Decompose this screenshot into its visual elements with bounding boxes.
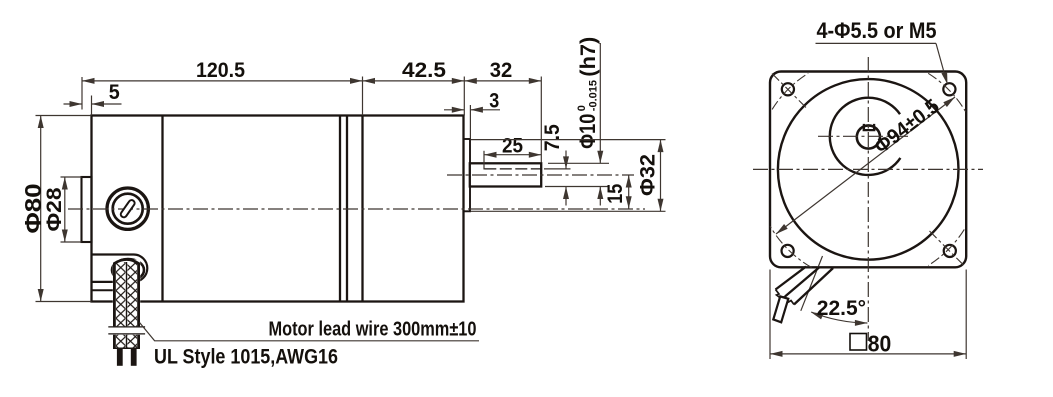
ext line left x82 bbox=[81, 77, 83, 110]
front wire break 2 bbox=[785, 297, 794, 305]
screw head inner bbox=[113, 194, 143, 224]
front horizontal centerline bbox=[753, 168, 983, 170]
ext line d32 top bbox=[471, 139, 666, 141]
mounting hole TL bbox=[782, 83, 794, 95]
gearhead case circle bbox=[778, 79, 959, 260]
ext line d28 bottom bbox=[61, 241, 82, 243]
dim 42.5 bbox=[363, 80, 465, 82]
dim phi80 bbox=[40, 116, 42, 302]
svg-text:Motor lead wire 300mm±10: Motor lead wire 300mm±10 bbox=[269, 317, 477, 340]
body centerline bbox=[68, 208, 645, 210]
svg-text:-0.015: -0.015 bbox=[587, 80, 599, 111]
bolt circle arc BR bbox=[928, 229, 964, 265]
dim phi10 bbox=[599, 43, 601, 163]
shaft keyway bbox=[863, 124, 876, 130]
svg-text:Φ10: Φ10 bbox=[575, 114, 600, 149]
ext line shaft bottom bbox=[545, 186, 609, 188]
front wire line 2 bbox=[785, 267, 820, 296]
svg-text:42.5: 42.5 bbox=[402, 58, 446, 82]
dim 3 bbox=[444, 109, 464, 111]
bolt circle arc TL bbox=[772, 73, 808, 109]
ext line d80 bottom bbox=[36, 301, 92, 303]
dim 25 bbox=[484, 154, 541, 156]
svg-text:7.5: 7.5 bbox=[540, 124, 564, 151]
ext line d32 bottom bbox=[471, 210, 666, 212]
mounting hole TR bbox=[943, 83, 955, 95]
shaft circle bbox=[857, 125, 880, 148]
dim 15 bbox=[628, 175, 630, 209]
svg-text:120.5: 120.5 bbox=[196, 58, 245, 82]
shaft centerline bbox=[447, 174, 634, 176]
cable grommet bbox=[112, 259, 144, 281]
shaft boss arc bbox=[830, 98, 901, 175]
lead wire sheath lower bbox=[113, 335, 140, 348]
hole diagonal BR bbox=[930, 231, 964, 265]
dim phi28 bbox=[64, 177, 66, 242]
svg-text:80: 80 bbox=[868, 330, 892, 356]
svg-text:0: 0 bbox=[576, 105, 588, 111]
svg-text:Φ32: Φ32 bbox=[635, 154, 659, 196]
gearhead joint line bbox=[161, 116, 163, 302]
outlet step line bbox=[92, 289, 115, 291]
angle arc 22.5 bbox=[811, 312, 867, 323]
ext line x470.4 bbox=[469, 105, 471, 139]
screw slot bbox=[120, 199, 136, 218]
ext line d28 top bbox=[61, 176, 82, 178]
mounting hole BL bbox=[782, 245, 794, 257]
ext line sq left bbox=[769, 270, 771, 360]
ext line x91.5 top bbox=[91, 96, 93, 116]
rear boss D28 bbox=[82, 177, 92, 242]
svg-text:3: 3 bbox=[489, 88, 499, 112]
case joint line 3 bbox=[361, 116, 363, 302]
ext tick x484 bbox=[483, 151, 485, 170]
bare lead 1 bbox=[117, 348, 123, 366]
svg-text:15: 15 bbox=[603, 184, 627, 204]
shaft horizontal centerline bbox=[818, 135, 909, 137]
lead wire sheath bbox=[113, 260, 140, 327]
dim phi94 line bbox=[776, 97, 955, 234]
svg-text:Φ28: Φ28 bbox=[42, 187, 66, 231]
front wire line 1 bbox=[776, 267, 807, 290]
cable outlet housing bbox=[92, 255, 148, 282]
dim phi32 bbox=[660, 140, 662, 212]
case joint line 2 bbox=[346, 116, 348, 302]
svg-text:22.5°: 22.5° bbox=[817, 297, 866, 320]
bare lead 2 bbox=[131, 348, 137, 366]
label phi10 tol h7 bbox=[575, 37, 600, 149]
case joint line 1 bbox=[339, 116, 341, 302]
wire angle ref line bbox=[801, 256, 823, 311]
ext line d80 top bbox=[36, 115, 92, 117]
leader to hole bbox=[936, 43, 946, 80]
leader motor lead wire bbox=[140, 323, 480, 341]
ext line x541.3 bbox=[540, 77, 542, 163]
bearing boss D32 bbox=[464, 139, 471, 211]
dim 5 bbox=[64, 103, 83, 105]
angle arrow right bbox=[855, 320, 868, 326]
dim sq80 bbox=[770, 353, 966, 355]
svg-text:UL Style 1015,AWG16: UL Style 1015,AWG16 bbox=[154, 345, 338, 368]
front vertical centerline bbox=[867, 57, 869, 341]
label sq80 symbol bbox=[850, 334, 867, 351]
ext line x464.3 top bbox=[463, 77, 465, 116]
dim 120.5 bbox=[82, 80, 363, 82]
motor body outline bbox=[92, 116, 464, 302]
leader underline bbox=[816, 42, 937, 44]
output shaft bbox=[470, 163, 541, 186]
dim 32 bbox=[464, 80, 541, 82]
svg-text:4-Φ5.5 or M5: 4-Φ5.5 or M5 bbox=[817, 18, 937, 43]
shaft flat (hidden line) bbox=[484, 168, 541, 170]
svg-text:32: 32 bbox=[490, 58, 513, 82]
flange square bbox=[770, 72, 966, 268]
svg-text:5: 5 bbox=[109, 80, 120, 104]
bolt circle arc TR bbox=[928, 73, 966, 113]
screw head outer bbox=[107, 188, 148, 229]
svg-text:(h7): (h7) bbox=[577, 37, 600, 77]
ext line sq right bbox=[965, 270, 967, 360]
mounting hole BR bbox=[944, 245, 956, 257]
ext line flat y168.9 bbox=[544, 168, 571, 170]
front wire line 3 bbox=[794, 268, 833, 304]
dim 7.5 bbox=[565, 151, 567, 169]
bolt circle arc BL bbox=[770, 226, 812, 267]
svg-text:25: 25 bbox=[502, 133, 523, 157]
angle arrow left bbox=[811, 312, 824, 319]
wire break bbox=[107, 327, 146, 334]
ext line x362.5 top bbox=[362, 77, 364, 116]
front wire break 1 bbox=[776, 290, 786, 299]
hole diagonal TL bbox=[772, 74, 808, 110]
front bare lead bbox=[773, 296, 788, 322]
ext line shaft top bbox=[548, 162, 609, 164]
